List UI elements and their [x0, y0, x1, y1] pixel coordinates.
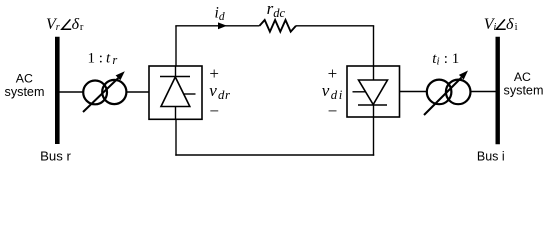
node Vi: angle symbol [496, 19, 505, 29]
transformer Ti circle 2 [446, 80, 471, 105]
svg-text:AC: AC [514, 70, 531, 84]
thyristor U1 top lead [175, 66, 177, 77]
wire inverter box to transformer Ti [400, 91, 427, 93]
transformer Ti circle 1 [427, 80, 452, 105]
resistor rdc zigzag [260, 20, 297, 32]
node Vr: angle symbol [62, 19, 71, 29]
svg-text:tr: tr [106, 50, 117, 67]
current arrow id [218, 22, 227, 29]
bus i bar [496, 37, 500, 145]
wire dc bottom segment [175, 154, 374, 156]
thyristor U1 triangle [161, 77, 190, 107]
thyristor U2 gate line [353, 91, 367, 93]
thyristor U1 bottom lead [175, 107, 177, 120]
bus r bar [55, 37, 60, 144]
svg-text:system: system [504, 84, 544, 98]
svg-text:Bus r: Bus r [40, 148, 71, 163]
rectifier converter box U1 [149, 66, 202, 119]
wire bus r to transformer Tr [59, 91, 83, 93]
wire transformer Tr to rectifier box [127, 91, 149, 93]
wire dc top left segment [175, 25, 259, 27]
transformer Ti tap arrow [424, 71, 468, 116]
svg-text:system: system [5, 85, 45, 99]
wire dc loop left vertical bottom [175, 119, 177, 155]
inverter converter box U2 [347, 66, 400, 117]
thyristor U2 bottom lead [373, 105, 375, 117]
svg-text:1 :: 1 : [88, 50, 103, 66]
thyristor U2 triangle (inverted) [359, 80, 388, 105]
svg-text:: 1: : 1 [444, 51, 459, 67]
transformer Tr circle 2 [102, 80, 126, 104]
wire transformer Ti to bus i [471, 91, 495, 93]
thyristor U1 cathode bar [160, 76, 190, 78]
svg-text:Bus i: Bus i [477, 149, 505, 163]
thyristor U2 top lead [373, 66, 375, 80]
thyristor U2 cathode bar [358, 104, 387, 106]
transformer Tr tap arrow [83, 71, 125, 112]
wire dc loop right vertical bottom [373, 117, 375, 156]
svg-text:AC: AC [16, 71, 33, 85]
svg-text:−: − [209, 101, 219, 120]
transformer Tr circle 1 [83, 81, 107, 105]
svg-text:−: − [328, 101, 338, 120]
wire dc loop left vertical top [175, 26, 177, 66]
wire dc loop right vertical top [373, 26, 375, 66]
wire dc top right segment [296, 25, 374, 27]
thyristor U1 gate line [184, 93, 196, 95]
